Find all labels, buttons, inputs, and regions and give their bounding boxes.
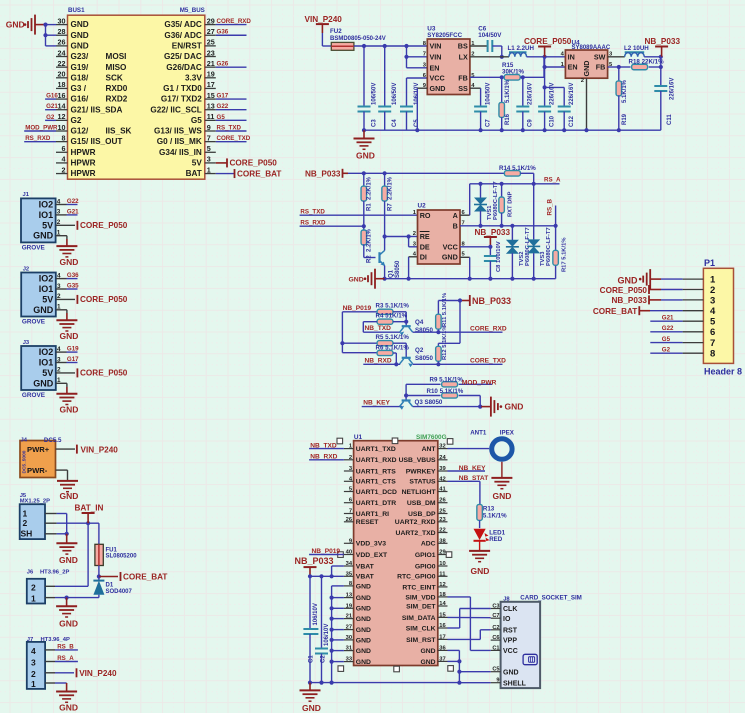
svg-text:NB_P033: NB_P033 — [645, 37, 681, 46]
svg-text:VBAT: VBAT — [356, 563, 375, 570]
svg-text:U1: U1 — [354, 434, 363, 441]
svg-text:NB_P033: NB_P033 — [295, 556, 334, 566]
connector CARD_SOCKET_SIM body — [501, 594, 582, 688]
svg-text:106/50V: 106/50V — [392, 83, 398, 105]
svg-text:GPIO0: GPIO0 — [415, 563, 436, 570]
svg-text:RTC_GPIO0: RTC_GPIO0 — [397, 574, 436, 581]
svg-text:226/16V: 226/16V — [549, 83, 555, 105]
svg-text:GND: GND — [356, 595, 371, 602]
svg-text:GND: GND — [356, 659, 371, 666]
svg-text:23: 23 — [439, 517, 446, 523]
svg-text:7: 7 — [423, 52, 426, 58]
svg-text:R14 5.1K/1%: R14 5.1K/1% — [499, 165, 536, 172]
svg-text:EN: EN — [568, 63, 578, 72]
net label G22 at P1 pin6 — [650, 325, 682, 332]
svg-text:5: 5 — [207, 144, 211, 153]
svg-text:18: 18 — [58, 80, 66, 89]
power label VIN_P240 at input — [305, 15, 343, 46]
wire Q2 collector CORE_TXD — [413, 358, 506, 367]
svg-text:10: 10 — [439, 561, 445, 567]
svg-text:L1 2.2UH: L1 2.2UH — [508, 45, 535, 52]
inductor L1 2.2UH — [508, 45, 535, 57]
svg-text:SW: SW — [594, 52, 606, 61]
svg-text:G16: G16 — [46, 92, 58, 99]
wire CORE_P050 rail — [527, 55, 566, 59]
svg-text:GND: GND — [505, 401, 524, 411]
svg-text:R1: R1 — [367, 203, 373, 211]
svg-text:USB_VBUS: USB_VBUS — [399, 457, 436, 464]
svg-text:G16/: G16/ — [71, 95, 89, 104]
svg-text:27: 27 — [207, 27, 215, 36]
svg-text:GND: GND — [356, 637, 371, 644]
svg-text:GND: GND — [60, 405, 79, 415]
svg-text:11: 11 — [439, 571, 446, 577]
svg-text:7: 7 — [207, 133, 211, 142]
J3 pin1 wire to ground — [56, 377, 67, 393]
svg-text:2.2K/1%: 2.2K/1% — [387, 176, 393, 200]
svg-text:30K/1%: 30K/1% — [502, 68, 525, 75]
svg-text:G2: G2 — [662, 347, 671, 354]
svg-text:BAT_IN: BAT_IN — [75, 504, 104, 513]
svg-text:4: 4 — [57, 272, 61, 279]
svg-text:G35: G35 — [67, 283, 79, 290]
svg-text:R4 51K/1%: R4 51K/1% — [376, 313, 408, 320]
svg-text:IO1: IO1 — [39, 358, 54, 368]
ground GND below J5 — [56, 543, 77, 565]
resistor R1 2.2K/1% — [361, 173, 372, 226]
svg-text:R5 5.1K/1%: R5 5.1K/1% — [376, 334, 410, 341]
J1 pin4 wire and label G22 — [56, 198, 80, 205]
svg-text:C3: C3 — [492, 604, 499, 610]
svg-text:3: 3 — [57, 356, 61, 363]
svg-text:UART1_RTS: UART1_RTS — [356, 468, 396, 475]
svg-text:1: 1 — [23, 509, 28, 519]
svg-text:C6: C6 — [492, 635, 499, 641]
TVS diode TVS3 — [527, 227, 552, 278]
svg-text:GND: GND — [356, 606, 371, 613]
svg-text:VCC: VCC — [430, 74, 445, 83]
svg-text:CORE_BAT: CORE_BAT — [123, 573, 167, 582]
svg-text:C1: C1 — [492, 645, 499, 651]
J3 pin3 wire and label G17 — [56, 356, 79, 363]
wire U2 B net — [460, 224, 558, 228]
svg-text:C11: C11 — [667, 114, 673, 125]
svg-text:PWR-: PWR- — [27, 466, 48, 475]
svg-text:2: 2 — [57, 293, 61, 300]
svg-text:21: 21 — [207, 59, 215, 68]
svg-text:IO2: IO2 — [39, 347, 54, 357]
J6 pin2 wire to BAT_IN — [45, 585, 88, 587]
capacitor C3 106/50V — [358, 46, 378, 130]
svg-text:G13/ IIS_WS: G13/ IIS_WS — [154, 127, 202, 136]
svg-text:25: 25 — [207, 38, 215, 47]
svg-text:GND: GND — [71, 41, 89, 50]
J4 pin names — [27, 445, 50, 475]
svg-text:MOSI: MOSI — [106, 52, 127, 61]
power label NB_P033 at U1 VBAT — [295, 556, 334, 576]
svg-text:29: 29 — [207, 16, 215, 25]
svg-text:FU1: FU1 — [106, 547, 118, 553]
net label NB_RXD at U1 — [309, 454, 344, 461]
svg-text:G2: G2 — [71, 116, 82, 125]
svg-text:SS: SS — [458, 84, 468, 93]
svg-text:11: 11 — [207, 112, 215, 121]
svg-text:GND: GND — [420, 648, 435, 655]
svg-text:2: 2 — [581, 78, 584, 84]
net label RS_TXD wire to U2 RO — [300, 209, 418, 216]
svg-text:GND: GND — [71, 20, 89, 29]
svg-text:GND: GND — [71, 31, 89, 40]
wire bottom ground bus — [310, 682, 459, 684]
J3 pin4 wire and label G19 — [56, 346, 79, 353]
svg-text:C5: C5 — [492, 667, 499, 673]
net label NB_RXD wire — [363, 357, 400, 366]
svg-text:G23/: G23/ — [71, 52, 89, 61]
net label G26 at BUS1 pin21 — [216, 61, 247, 68]
svg-text:PWR+: PWR+ — [27, 445, 50, 454]
svg-text:GND: GND — [60, 257, 79, 267]
svg-text:VBAT: VBAT — [356, 574, 375, 581]
svg-text:2: 2 — [710, 285, 715, 296]
resistor R3 5.1K/1% — [342, 302, 409, 321]
svg-text:33: 33 — [346, 657, 353, 663]
J2 pin3 wire and label G35 — [56, 283, 79, 290]
svg-text:G17: G17 — [217, 92, 229, 99]
svg-text:MOD_PWR: MOD_PWR — [25, 124, 58, 131]
wire RE DE junction — [385, 234, 418, 246]
svg-text:5V: 5V — [42, 220, 53, 230]
svg-text:GND: GND — [356, 583, 371, 590]
svg-text:R16: R16 — [505, 113, 511, 125]
svg-text:NB_TXD: NB_TXD — [365, 325, 392, 332]
svg-text:ADC: ADC — [421, 541, 436, 548]
svg-text:IO2: IO2 — [39, 200, 54, 210]
svg-text:SH: SH — [21, 528, 33, 538]
svg-text:1: 1 — [57, 377, 61, 384]
wire RS_B vertical — [547, 198, 556, 225]
ground GND below J7 — [56, 692, 78, 713]
svg-text:35: 35 — [346, 571, 353, 577]
net label NB_P019 at U1 VDD_EXT — [309, 548, 344, 555]
fuse FU1 SL0805200 — [95, 523, 137, 578]
power label CORE_BAT at P1 pin4 — [593, 306, 683, 316]
wire Q4 collector CORE_RXD — [413, 325, 507, 334]
svg-text:CORE_P050: CORE_P050 — [80, 295, 128, 304]
svg-text:G2: G2 — [46, 114, 55, 121]
svg-text:9: 9 — [496, 678, 499, 684]
svg-text:G21: G21 — [67, 209, 79, 216]
wire VBAT rows — [308, 566, 344, 578]
svg-text:UART1_DCD: UART1_DCD — [356, 489, 397, 496]
wire SIM_DATA to IO — [448, 616, 491, 618]
regulator U3 SY8205FCC body — [427, 26, 470, 95]
svg-text:5.1K/1%: 5.1K/1% — [505, 79, 511, 103]
svg-text:8: 8 — [710, 349, 715, 360]
capacitor C8 100/10V — [484, 241, 502, 278]
net label G17 at BUS1 pin15 — [216, 92, 247, 99]
svg-text:R11 5.1K/1%: R11 5.1K/1% — [442, 293, 448, 327]
transistor Q2 S8050 — [400, 347, 434, 367]
U3 pin names — [423, 41, 475, 93]
resistor R16 5.1K/1% — [499, 77, 511, 132]
svg-text:G26: G26 — [217, 61, 229, 68]
capacitor C11 226/16V — [654, 57, 675, 130]
power label CORE_P050 at BUS1 pin3 — [216, 158, 277, 167]
svg-text:1: 1 — [31, 593, 36, 603]
svg-text:SIM_VDD: SIM_VDD — [405, 594, 435, 601]
svg-text:R9 5.1K/1%: R9 5.1K/1% — [430, 377, 464, 384]
svg-text:5: 5 — [710, 317, 716, 328]
svg-text:MX1.25_2P: MX1.25_2P — [20, 499, 50, 505]
svg-text:7: 7 — [349, 509, 352, 515]
svg-text:2: 2 — [349, 455, 352, 461]
svg-text:G17: G17 — [67, 356, 79, 363]
wire VIN bus to U3 — [354, 44, 427, 48]
svg-text:C8 100/10V: C8 100/10V — [496, 241, 502, 272]
svg-text:Q1: Q1 — [389, 269, 395, 278]
svg-text:BAT: BAT — [186, 169, 202, 178]
svg-text:2: 2 — [413, 231, 416, 237]
svg-text:104/50V: 104/50V — [478, 32, 502, 39]
svg-text:UART1_RI: UART1_RI — [356, 511, 389, 518]
connector J7 HT3.96_4P body — [27, 637, 70, 689]
wire NB_P033 down to R12 — [438, 301, 460, 347]
wire R15 to output jog — [520, 59, 544, 80]
svg-text:24: 24 — [58, 48, 66, 57]
svg-text:226/16V: 226/16V — [569, 83, 575, 105]
svg-text:2: 2 — [57, 367, 61, 374]
svg-text:15: 15 — [207, 91, 215, 100]
svg-text:31: 31 — [346, 646, 353, 652]
connector BUS1 M5_BUS body — [68, 7, 205, 179]
svg-text:41: 41 — [439, 487, 446, 493]
svg-text:R3 5.1K/1%: R3 5.1K/1% — [376, 302, 410, 309]
ground GND below LED1 — [469, 551, 490, 576]
svg-text:RST: RST — [503, 627, 518, 634]
wire FB node U4 — [608, 65, 621, 69]
svg-text:DE: DE — [420, 243, 430, 252]
power label CORE_P050 at P1 pin2 — [600, 285, 683, 295]
svg-text:CORE_BAT: CORE_BAT — [593, 307, 637, 316]
J2 pin4 wire and label G36 — [56, 272, 79, 279]
svg-text:USB_DM: USB_DM — [407, 500, 436, 507]
svg-text:J6: J6 — [27, 569, 34, 575]
svg-text:GND: GND — [60, 491, 79, 501]
svg-text:13: 13 — [207, 102, 215, 111]
svg-text:106/10V: 106/10V — [313, 603, 319, 625]
svg-text:GND: GND — [356, 151, 375, 161]
wire SIM_RST to RST — [448, 630, 491, 640]
svg-text:39: 39 — [439, 466, 446, 472]
wire SIM_CLK to CLK — [448, 609, 491, 629]
power label NB_P033 at RS485 — [305, 169, 348, 179]
svg-text:19: 19 — [207, 70, 215, 79]
J4 PWR- wire to ground — [56, 470, 68, 480]
svg-text:C12: C12 — [569, 115, 575, 127]
antenna ANT1 IPEX connector — [470, 430, 515, 460]
resistor R6 5.1K/1% — [342, 344, 409, 364]
svg-text:4: 4 — [57, 198, 61, 205]
power label NB_P033 at P1 pin3 — [611, 295, 682, 305]
svg-text:BSMD0805-050-24V: BSMD0805-050-24V — [330, 36, 386, 42]
power label CORE_P050 at U4 input — [524, 37, 572, 57]
svg-text:HPWR: HPWR — [71, 148, 96, 157]
capacitor C2 106/10V — [315, 576, 330, 684]
wire SIM_VDD to VCC — [448, 597, 491, 651]
net label G16 at BUS1 pin16 — [45, 92, 58, 99]
svg-text:20: 20 — [58, 70, 66, 79]
svg-text:5.1K/1%: 5.1K/1% — [483, 512, 507, 519]
svg-text:GND: GND — [356, 616, 371, 623]
svg-text:Q4: Q4 — [415, 319, 424, 326]
svg-text:J7: J7 — [27, 637, 33, 643]
svg-text:HT3.96_2P: HT3.96_2P — [40, 569, 69, 575]
svg-text:P1: P1 — [704, 258, 715, 268]
svg-text:RXD0: RXD0 — [106, 84, 128, 93]
svg-text:GROVE: GROVE — [22, 319, 46, 326]
svg-text:GND: GND — [471, 566, 490, 576]
svg-text:2: 2 — [62, 165, 66, 174]
net label RS_TXD at BUS1 pin9 — [216, 124, 247, 131]
svg-text:22: 22 — [58, 59, 66, 68]
svg-text:C3: C3 — [372, 119, 378, 127]
J7 pin3 wire RS_A — [45, 655, 78, 662]
card socket pin rows — [491, 604, 527, 688]
connector P1 Header8 body — [703, 258, 742, 377]
svg-text:RESET: RESET — [356, 519, 380, 526]
J1 pin1 wire to ground — [56, 230, 67, 246]
svg-text:ANT: ANT — [422, 446, 437, 453]
svg-text:G22: G22 — [217, 103, 229, 110]
svg-text:HPWR: HPWR — [71, 159, 96, 168]
svg-text:14: 14 — [439, 601, 446, 607]
power label BAT_IN — [75, 504, 104, 524]
svg-text:NETLIGHT: NETLIGHT — [402, 489, 437, 496]
transistor Q4 S8050 — [400, 319, 434, 336]
svg-text:3.3V: 3.3V — [185, 73, 202, 82]
svg-text:SIM7600G: SIM7600G — [416, 434, 447, 441]
svg-text:RS_B: RS_B — [547, 198, 554, 215]
J5 pin2 wire BAT_IN — [45, 521, 99, 525]
svg-text:C2: C2 — [321, 655, 327, 663]
wire FB node U3 — [470, 75, 504, 79]
svg-text:26: 26 — [439, 498, 446, 504]
svg-text:RO: RO — [420, 211, 431, 220]
svg-text:GND: GND — [59, 555, 78, 565]
svg-text:RXD2: RXD2 — [106, 95, 128, 104]
svg-text:3: 3 — [57, 283, 61, 290]
U1 fiducial squares — [337, 438, 453, 672]
svg-text:EN/RST: EN/RST — [172, 41, 202, 50]
svg-text:SY8089AAAC: SY8089AAAC — [572, 45, 611, 51]
svg-text:NB_KEY: NB_KEY — [363, 400, 390, 407]
resistor R15 30K/1% — [502, 62, 525, 80]
svg-text:VPP: VPP — [503, 638, 517, 645]
resistor R4 5.1K/1% — [363, 313, 408, 333]
J6 pin1 wire to D1 and ground — [45, 596, 99, 606]
wire VIN7 and EN tap — [404, 46, 427, 68]
svg-text:CORE_BAT: CORE_BAT — [237, 169, 281, 178]
svg-text:37: 37 — [439, 656, 445, 662]
svg-text:G21: G21 — [662, 315, 674, 322]
svg-text:HPWR: HPWR — [71, 169, 96, 178]
svg-text:38: 38 — [439, 538, 446, 544]
svg-text:Q3 S8050: Q3 S8050 — [415, 399, 443, 406]
svg-text:RTC_EINT: RTC_EINT — [402, 584, 436, 591]
svg-text:G36: G36 — [217, 29, 229, 36]
svg-text:21: 21 — [346, 614, 353, 620]
capacitor C4 106/50V — [378, 46, 398, 130]
capacitor C10 226/16V — [538, 83, 555, 133]
svg-text:Header 8: Header 8 — [704, 367, 742, 377]
net label G5 at P1 pin7 — [650, 336, 682, 343]
svg-text:GPIO1: GPIO1 — [415, 552, 436, 559]
connector J2 GROVE body — [21, 266, 56, 325]
U2 pin names — [413, 210, 466, 262]
svg-text:GND: GND — [60, 331, 79, 341]
J7 pin4 wire RS_B — [45, 643, 78, 650]
svg-text:2.2K/1%: 2.2K/1% — [367, 228, 373, 252]
ground GND right of Q3 — [481, 397, 523, 417]
svg-text:27: 27 — [346, 625, 352, 631]
svg-text:GROVE: GROVE — [22, 392, 46, 399]
wire CORE_P050 vertical to EN and caps — [543, 57, 566, 107]
svg-text:RS_RXD: RS_RXD — [25, 135, 51, 142]
J1 pin2 power CORE_P050 — [56, 219, 128, 230]
svg-text:UART1_DTR: UART1_DTR — [356, 500, 396, 507]
svg-text:G25/ DAC: G25/ DAC — [164, 52, 202, 61]
svg-text:2.2K/1%: 2.2K/1% — [367, 176, 373, 200]
wire NB_P033 rail to R14 — [348, 171, 505, 175]
svg-text:BS: BS — [458, 42, 468, 51]
capacitor C1 106/10V — [303, 576, 319, 684]
svg-text:DI: DI — [420, 253, 427, 262]
svg-text:A: A — [453, 211, 458, 220]
svg-text:R18 22K/1%: R18 22K/1% — [629, 58, 665, 65]
J7 pin2 power VIN_P240 — [45, 668, 117, 678]
svg-text:R12 5.1K/1%: R12 5.1K/1% — [442, 326, 448, 360]
svg-text:106/10V: 106/10V — [324, 624, 330, 646]
svg-text:SIM_DET: SIM_DET — [406, 603, 436, 610]
svg-text:NB_P033: NB_P033 — [475, 228, 511, 237]
capacitor C9 226/16V — [516, 77, 533, 132]
svg-text:G5: G5 — [191, 116, 202, 125]
svg-text:R7: R7 — [387, 203, 393, 211]
svg-text:GND: GND — [6, 20, 25, 30]
U3 GND pin wire to bus — [415, 88, 427, 132]
svg-text:1: 1 — [57, 304, 61, 311]
svg-text:FB: FB — [596, 63, 606, 72]
svg-text:CORE_RXD: CORE_RXD — [470, 325, 507, 332]
J1 pin3 wire and label G21 — [56, 209, 80, 216]
svg-text:MOD_PWR: MOD_PWR — [462, 379, 497, 386]
svg-text:1: 1 — [207, 165, 211, 174]
svg-text:5V: 5V — [42, 368, 53, 378]
svg-text:GND: GND — [33, 231, 54, 241]
svg-text:4: 4 — [31, 646, 36, 656]
resistor R2 2.2K/1% — [361, 226, 375, 263]
J7 pin1 wire to ground — [45, 683, 67, 691]
svg-text:UART2_TXD: UART2_TXD — [396, 530, 436, 537]
svg-text:GROVE: GROVE — [22, 244, 46, 251]
svg-text:28: 28 — [58, 27, 66, 36]
svg-text:C1: C1 — [309, 655, 315, 663]
net label CORE_RXD at BUS1 pin29 — [216, 18, 252, 25]
svg-text:C10: C10 — [549, 115, 555, 127]
resistor R14 5.1K/1% — [499, 165, 536, 239]
svg-text:IO: IO — [503, 616, 511, 623]
svg-text:R6 5.1K/1%: R6 5.1K/1% — [376, 344, 410, 351]
